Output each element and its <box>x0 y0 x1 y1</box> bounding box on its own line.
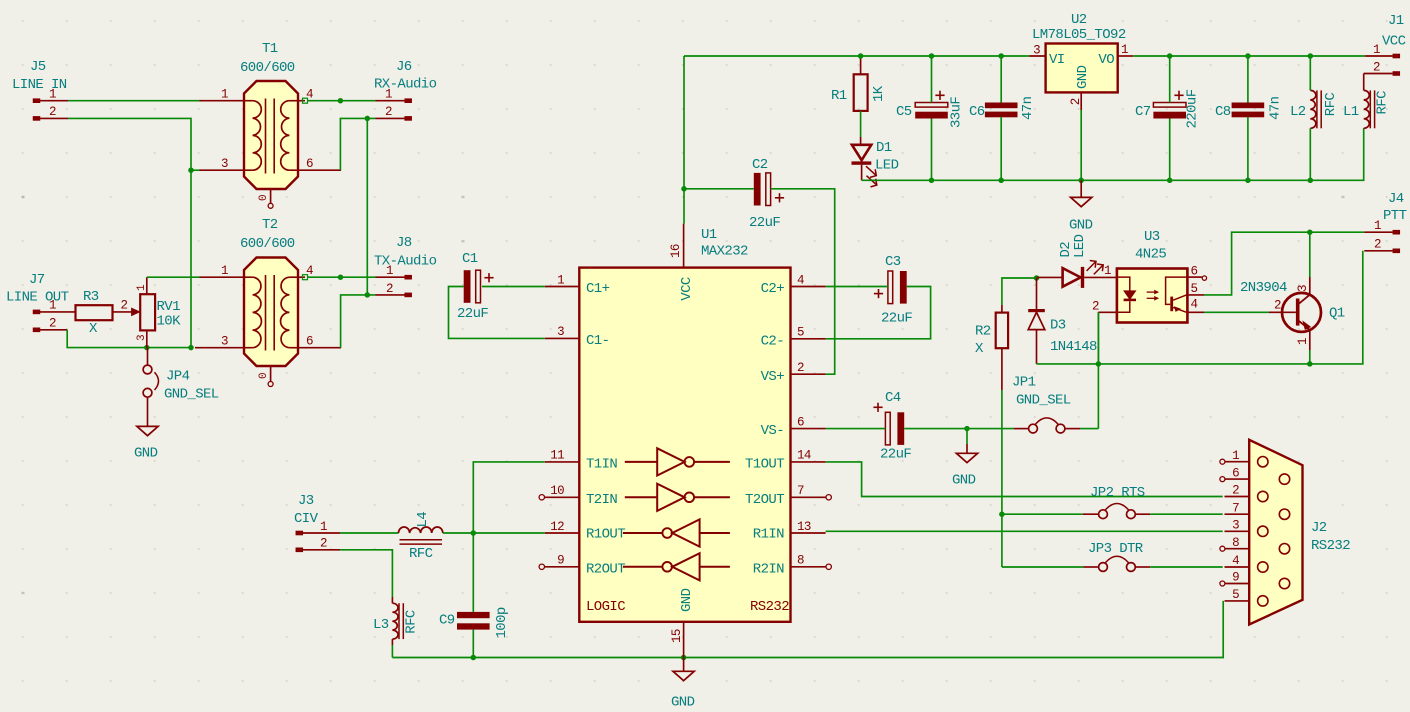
wire J5 pin2 down to T1 pin3 / RV1 node <box>68 118 191 347</box>
inductor L1 RFC <box>1343 90 1390 128</box>
svg-text:22uF: 22uF <box>749 215 780 231</box>
connector J6 RX-Audio <box>374 59 437 121</box>
svg-text:J2: J2 <box>1311 520 1327 536</box>
wire to R2 and D2 anode <box>1002 278 1037 305</box>
svg-text:J5: J5 <box>30 59 46 75</box>
svg-text:10K: 10K <box>157 314 182 330</box>
svg-text:9: 9 <box>557 554 564 568</box>
svg-text:TX-Audio: TX-Audio <box>374 254 437 270</box>
svg-text:15: 15 <box>670 629 684 643</box>
svg-text:1: 1 <box>557 273 564 287</box>
svg-text:2N3904: 2N3904 <box>1240 280 1287 296</box>
svg-text:C1: C1 <box>462 251 478 267</box>
svg-text:2: 2 <box>49 105 56 119</box>
junction C5 bottom <box>929 178 935 184</box>
wires L2 <box>1309 56 1311 180</box>
svg-text:1: 1 <box>1373 43 1380 57</box>
svg-text:7: 7 <box>797 484 804 498</box>
junction at RV1 pin3 <box>144 345 150 351</box>
svg-text:T1: T1 <box>262 41 278 57</box>
svg-text:3: 3 <box>221 157 228 171</box>
svg-text:VCC: VCC <box>1382 34 1406 50</box>
no-connect pins U1 <box>539 495 831 570</box>
ground rail top right <box>862 128 1364 180</box>
svg-text:T1OUT: T1OUT <box>745 457 784 473</box>
svg-text:L4: L4 <box>415 512 431 528</box>
ground rail wire <box>392 601 1223 658</box>
svg-text:22uF: 22uF <box>880 447 911 463</box>
junction on T2 pin4 wire <box>338 274 344 280</box>
svg-text:47n: 47n <box>1020 96 1036 120</box>
svg-text:VCC: VCC <box>679 277 695 301</box>
wire L3 to ground rail <box>391 645 393 658</box>
svg-text:U3: U3 <box>1144 229 1160 245</box>
emitter rail wire <box>1037 251 1363 364</box>
svg-text:12: 12 <box>550 520 564 534</box>
svg-text:1K: 1K <box>871 85 887 102</box>
svg-text:6: 6 <box>1232 466 1239 480</box>
svg-text:0: 0 <box>258 195 270 201</box>
wire J3 pin2 down to L3 <box>340 550 392 597</box>
wire J5 pin1 to T1 pin1 <box>68 100 200 102</box>
junction U1 pin15 ground <box>681 655 687 661</box>
svg-text:1: 1 <box>1104 264 1111 278</box>
LED D1 <box>852 140 899 187</box>
svg-text:LINE IN: LINE IN <box>12 77 67 93</box>
junction C6 bottom <box>998 178 1004 184</box>
svg-text:8: 8 <box>1232 536 1239 550</box>
svg-text:T2IN: T2IN <box>586 492 617 508</box>
U3 pin stubs <box>1092 265 1207 314</box>
svg-text:LM78L05_TO92: LM78L05_TO92 <box>1032 27 1126 43</box>
svg-text:1: 1 <box>221 264 228 278</box>
svg-text:GND: GND <box>679 588 695 612</box>
svg-text:LOGIC: LOGIC <box>586 599 625 615</box>
pin stubs T1 <box>200 101 342 171</box>
svg-text:JP2 RTS: JP2 RTS <box>1090 485 1145 501</box>
jumper JP2 RTS <box>1002 485 1223 519</box>
svg-text:JP1: JP1 <box>1012 375 1036 391</box>
LED D2 <box>1037 234 1117 288</box>
svg-text:1: 1 <box>49 88 56 102</box>
capacitor C2 22uF <box>749 157 784 231</box>
capacitor C4 22uF <box>873 390 911 463</box>
wire L1 top to J1 pin2 <box>1364 74 1393 91</box>
svg-text:7: 7 <box>1232 501 1239 515</box>
wires C8 <box>1247 56 1249 180</box>
wire JP1 to emitter rail <box>1080 312 1098 429</box>
jumper JP1 GND_SEL <box>1012 375 1080 434</box>
junction C7 bottom <box>1167 178 1173 184</box>
svg-text:VO: VO <box>1098 52 1114 68</box>
svg-text:J6: J6 <box>396 59 412 75</box>
svg-text:2: 2 <box>386 282 393 296</box>
capacitor C1 22uF <box>457 251 494 322</box>
jumper JP4 GND_SEL <box>143 348 219 403</box>
U1 pin names and internal buffers <box>586 277 789 615</box>
svg-text:3: 3 <box>1232 519 1239 533</box>
svg-text:4: 4 <box>797 273 804 287</box>
VCC wire from U1 pin16 <box>683 56 685 189</box>
svg-text:J3: J3 <box>298 493 314 509</box>
svg-text:R1: R1 <box>831 88 847 104</box>
wire VS- pin6 through C4 to JP1 <box>826 428 1014 430</box>
optocoupler U3 4N25 <box>1117 229 1188 323</box>
svg-text:4N25: 4N25 <box>1135 247 1166 263</box>
svg-text:1: 1 <box>1121 43 1128 57</box>
svg-text:VS-: VS- <box>761 423 784 439</box>
wire U3 pin4 to Q1 base <box>1204 311 1269 313</box>
svg-text:5: 5 <box>797 326 804 340</box>
svg-text:J4: J4 <box>1388 191 1404 207</box>
ground symbol below JP4 <box>134 397 158 461</box>
junction D2 anode / D3 cathode <box>1034 275 1040 281</box>
svg-text:2: 2 <box>1274 299 1281 313</box>
wire J6 pin2 net <box>340 118 375 170</box>
no-connect pins J2 <box>1220 459 1225 586</box>
wire J3 pin1 to L4 <box>340 532 398 534</box>
svg-text:33uF: 33uF <box>949 97 965 128</box>
junction Q1 emitter <box>1307 361 1313 367</box>
svg-text:C2: C2 <box>752 157 768 173</box>
svg-text:10: 10 <box>550 484 564 498</box>
wire U3 pin2 down to rail <box>1097 312 1099 364</box>
svg-text:4: 4 <box>1232 554 1239 568</box>
svg-text:U2: U2 <box>1071 12 1087 28</box>
wire L4 to U1 pin12 <box>443 532 545 534</box>
svg-text:22uF: 22uF <box>457 306 488 322</box>
svg-text:14: 14 <box>797 449 811 463</box>
svg-text:R2: R2 <box>975 324 991 340</box>
svg-text:LED: LED <box>875 158 899 174</box>
junction at T1 pin3 <box>188 167 194 173</box>
svg-text:C5: C5 <box>896 104 912 120</box>
svg-text:47n: 47n <box>1268 96 1284 120</box>
wire T1IN from node <box>473 462 545 612</box>
svg-text:RFC: RFC <box>1374 91 1390 115</box>
connector J5 LINE IN <box>12 59 68 121</box>
svg-text:T2OUT: T2OUT <box>745 492 784 508</box>
resistor R1 1K <box>831 56 887 145</box>
svg-text:GND: GND <box>952 473 976 489</box>
svg-text:VI: VI <box>1049 52 1065 68</box>
svg-text:X: X <box>975 341 984 357</box>
svg-text:C1-: C1- <box>586 333 609 349</box>
junction L2 bottom <box>1308 178 1314 184</box>
svg-text:22uF: 22uF <box>881 311 912 327</box>
resistor R2 X <box>975 305 1008 390</box>
svg-text:RS232: RS232 <box>750 599 789 615</box>
wire C2 into VS+ pin2 <box>684 189 835 374</box>
svg-text:JP3 DTR: JP3 DTR <box>1088 541 1144 557</box>
junction at C2 tap <box>681 186 687 192</box>
svg-text:6: 6 <box>1191 265 1198 279</box>
svg-text:LED: LED <box>1072 234 1088 258</box>
junction at T2 pin3 node <box>188 345 194 351</box>
capacitor C6 47n <box>969 96 1036 120</box>
wire R1IN to J2 pin3 <box>826 530 1223 532</box>
resistor R3 <box>76 289 132 337</box>
svg-text:3: 3 <box>1033 44 1040 58</box>
svg-text:CIV: CIV <box>294 511 319 527</box>
svg-text:5: 5 <box>1191 282 1198 296</box>
wire T1 pin4 to J6 pin1 <box>303 98 376 103</box>
svg-text:T2: T2 <box>262 217 278 233</box>
svg-text:GND: GND <box>134 446 158 462</box>
svg-text:2: 2 <box>797 361 804 375</box>
junction C9 ground <box>471 655 477 661</box>
junction U3 pin2 rail <box>1096 361 1102 367</box>
wire U2 pin2 to ground rail <box>1080 110 1082 180</box>
connector J3 CIV <box>294 493 340 552</box>
svg-text:T1IN: T1IN <box>586 457 617 473</box>
wire Q1 emitter to rail <box>1309 350 1311 364</box>
svg-text:D1: D1 <box>876 140 892 156</box>
capacitor C5 33uF <box>896 91 965 128</box>
wire stub to T1 pin3 <box>191 169 200 171</box>
inductor L3 RFC <box>373 597 419 645</box>
svg-text:C7: C7 <box>1135 104 1151 120</box>
svg-text:3: 3 <box>1296 285 1310 292</box>
wire RV1 pin1 to T2 pin1 <box>147 276 200 278</box>
svg-text:GND: GND <box>671 695 695 711</box>
junction R1 at VCC rail <box>858 53 864 59</box>
svg-text:L1: L1 <box>1343 104 1359 120</box>
svg-text:220uF: 220uF <box>1185 89 1201 128</box>
VCC rail right of U2 <box>1133 55 1365 57</box>
svg-text:R2OUT: R2OUT <box>586 561 625 577</box>
wire U3 pin5 up to J4 pin1 <box>1204 232 1364 295</box>
wire C2+ pin4 through C3 to C2- pin5 <box>826 287 931 339</box>
capacitor C3 22uF <box>874 254 913 327</box>
svg-text:3: 3 <box>221 335 228 349</box>
junction R2 to JP2 line <box>999 511 1005 517</box>
svg-text:6: 6 <box>797 415 804 429</box>
svg-text:2: 2 <box>121 299 128 313</box>
junction at J8 pin2 <box>365 292 371 298</box>
wire C1 to U1 pins 1 and 3 <box>449 287 545 339</box>
U1 pin stubs and numbers <box>545 224 826 658</box>
junction at J6 pin2 <box>365 116 371 122</box>
svg-text:MAX232: MAX232 <box>701 244 748 260</box>
svg-text:C1+: C1+ <box>586 281 610 297</box>
transformer T1 600/600 <box>221 41 313 208</box>
junction U2 ground <box>1078 178 1084 184</box>
jumper JP3 DTR <box>1002 541 1223 571</box>
svg-text:0: 0 <box>258 373 270 379</box>
wire T1OUT to J2 pin2 <box>826 462 1223 497</box>
connector J7 LINE OUT <box>6 272 76 332</box>
diode D3 1N4148 <box>1028 278 1097 364</box>
svg-text:1N4148: 1N4148 <box>1050 339 1097 355</box>
svg-text:GND: GND <box>1075 65 1091 89</box>
wire Q1 collector to J4 line <box>1309 232 1311 277</box>
svg-text:6: 6 <box>306 157 313 171</box>
wires C6 <box>1000 56 1002 180</box>
svg-text:RFC: RFC <box>403 610 419 634</box>
svg-text:1: 1 <box>49 299 56 313</box>
svg-text:RX-Audio: RX-Audio <box>374 77 437 93</box>
svg-text:2: 2 <box>1374 238 1381 252</box>
pin stubs T2 <box>195 277 341 348</box>
svg-text:1: 1 <box>385 88 392 102</box>
inductor L4 RFC <box>399 512 443 562</box>
wire T2 pin4 to J8 pin1 <box>303 275 376 280</box>
wires C5 <box>931 56 933 180</box>
svg-text:3: 3 <box>557 325 564 339</box>
svg-text:RFC: RFC <box>409 546 433 562</box>
capacitor C7 220uF <box>1135 89 1201 128</box>
svg-text:R1OUT: R1OUT <box>586 526 625 542</box>
svg-text:PTT: PTT <box>1383 208 1407 224</box>
svg-text:J1: J1 <box>1388 13 1404 29</box>
connector J2 RS232 DB9 <box>1225 440 1351 625</box>
regulator U2 LM78L05_TO92 <box>1032 12 1126 92</box>
svg-text:1: 1 <box>1374 219 1381 233</box>
svg-text:1: 1 <box>386 264 393 278</box>
svg-text:3: 3 <box>136 335 148 341</box>
svg-text:C8: C8 <box>1215 104 1231 120</box>
op-amp U1 MAX232 body <box>579 227 790 622</box>
svg-text:R2IN: R2IN <box>753 561 784 577</box>
svg-text:16: 16 <box>669 244 683 258</box>
svg-text:GND: GND <box>1069 218 1093 234</box>
transistor Q1 2N3904 <box>1240 277 1345 350</box>
svg-text:2: 2 <box>1373 61 1380 75</box>
U2 pin stubs <box>1029 43 1133 110</box>
svg-text:X: X <box>89 321 98 337</box>
connector J1 VCC <box>1365 13 1406 76</box>
svg-text:13: 13 <box>797 520 811 534</box>
wires C7 <box>1169 56 1171 180</box>
junction at Q1 collector <box>1307 229 1313 235</box>
svg-text:L3: L3 <box>373 617 389 633</box>
svg-text:LINE OUT: LINE OUT <box>6 290 69 306</box>
svg-text:2: 2 <box>1069 98 1083 105</box>
svg-text:J8: J8 <box>396 235 412 251</box>
svg-text:Q1: Q1 <box>1329 306 1345 322</box>
svg-text:600/600: 600/600 <box>240 236 295 252</box>
svg-text:9: 9 <box>1232 571 1239 585</box>
svg-text:11: 11 <box>550 449 564 463</box>
svg-text:D3: D3 <box>1050 318 1066 334</box>
inductor L2 RFC <box>1290 90 1339 128</box>
svg-text:2: 2 <box>1232 484 1239 498</box>
svg-text:1: 1 <box>1296 338 1310 345</box>
svg-text:4: 4 <box>1191 298 1198 312</box>
svg-text:8: 8 <box>797 554 804 568</box>
svg-text:5: 5 <box>1232 588 1239 602</box>
svg-text:RS232: RS232 <box>1311 538 1350 554</box>
wire J6 pin2 down to J8 pin2 <box>366 118 368 295</box>
ground symbol near C4 <box>952 429 978 489</box>
ground symbol U1 pin15 <box>671 658 695 711</box>
wire J8 pin2 net <box>341 295 376 348</box>
svg-text:100p: 100p <box>494 607 510 638</box>
transformer T2 600/600 <box>221 217 313 387</box>
svg-text:J7: J7 <box>29 272 45 288</box>
wire C9 to ground rail <box>472 630 474 658</box>
svg-text:C2-: C2- <box>761 334 784 350</box>
junction on T1 pin4 wire <box>338 98 344 104</box>
capacitor C9 100p <box>439 607 510 638</box>
svg-text:1: 1 <box>1232 449 1239 463</box>
svg-text:6: 6 <box>306 335 313 349</box>
svg-text:U1: U1 <box>701 227 717 243</box>
svg-text:GND_SEL: GND_SEL <box>1016 393 1071 409</box>
svg-text:1: 1 <box>221 88 228 102</box>
svg-text:1: 1 <box>320 520 327 534</box>
svg-text:VS+: VS+ <box>761 369 785 385</box>
VCC rail to U2 VI <box>684 55 1029 57</box>
svg-text:RFC: RFC <box>1323 93 1339 117</box>
svg-text:C2+: C2+ <box>761 281 785 297</box>
capacitor C8 47n <box>1215 96 1284 120</box>
svg-text:C9: C9 <box>439 613 455 629</box>
svg-text:2: 2 <box>1092 300 1099 314</box>
svg-text:L2: L2 <box>1290 104 1306 120</box>
connector J4 PTT <box>1364 191 1406 253</box>
junction on R1OUT line <box>471 530 477 536</box>
wire J7 pin2 to RV1 pin3 node <box>67 330 191 348</box>
svg-text:R1IN: R1IN <box>753 526 784 542</box>
svg-text:600/600: 600/600 <box>240 60 295 76</box>
ground symbol U2 <box>1069 180 1093 233</box>
svg-text:R3: R3 <box>83 289 99 305</box>
wire R2 down to JP2/JP3 nodes <box>1001 390 1003 567</box>
svg-text:GND_SEL: GND_SEL <box>164 386 219 402</box>
svg-text:2: 2 <box>49 317 56 331</box>
svg-text:1: 1 <box>136 284 148 291</box>
svg-text:2: 2 <box>385 105 392 119</box>
svg-text:C6: C6 <box>969 104 985 120</box>
connector J8 TX-Audio <box>374 235 437 297</box>
potentiometer RV1 10K <box>132 277 182 347</box>
svg-text:2: 2 <box>320 537 327 551</box>
svg-text:C4: C4 <box>885 390 901 406</box>
junction at GND tap C4 <box>964 426 970 432</box>
junction C8 bottom <box>1245 178 1251 184</box>
svg-text:JP4: JP4 <box>166 369 190 385</box>
svg-text:C3: C3 <box>885 254 901 270</box>
